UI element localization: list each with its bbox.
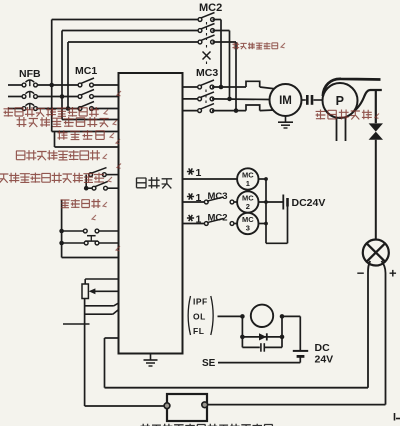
stray mark bottom right	[394, 413, 396, 421]
contactor coil MC3	[237, 213, 258, 234]
wire reset row	[55, 146, 119, 148]
wire analog 2	[85, 313, 113, 315]
wire bypass top L2	[62, 30, 200, 32]
junction L3/riser	[66, 106, 71, 111]
pump P outlet pipe outer	[323, 79, 381, 96]
wire L1 input	[8, 84, 24, 86]
contactor MC3 contact pole 2	[198, 97, 202, 101]
pushbutton SB1 (NO)	[83, 229, 87, 233]
contactor MC2 contact pole 1	[198, 18, 202, 22]
wire capacitor branch L	[242, 346, 259, 348]
label 变频器 (inverter)	[136, 177, 172, 188]
svg-text:MC2: MC2	[199, 2, 222, 14]
pump P outlet pipe inner	[348, 90, 382, 115]
wire bypass top L3	[68, 41, 200, 43]
wire L3 NFB to MC1	[36, 108, 81, 110]
wire to OL heater 3	[212, 110, 246, 112]
terminal group (IPF OL FL)	[188, 296, 190, 335]
svg-text:DC: DC	[315, 342, 331, 354]
svg-text:−: −	[357, 266, 365, 281]
contact MC3 aux (NC)	[183, 201, 205, 203]
wire MC2 coil to DC24V	[259, 201, 284, 203]
svg-text:MC1: MC1	[75, 65, 97, 77]
wire heater3 to motor	[260, 109, 275, 112]
wire MC2 out L2	[213, 30, 230, 32]
svg-text:NFB: NFB	[19, 68, 41, 80]
wire shield to TB	[85, 405, 167, 407]
breaker NFB pole 1	[22, 83, 26, 87]
contact K-param row1	[89, 173, 93, 177]
contactor MC3 contact pole 3	[198, 109, 202, 113]
svg-text:IM: IM	[279, 95, 292, 107]
junction bypass/out L1	[219, 85, 224, 90]
svg-text:MC2: MC2	[208, 213, 228, 224]
breaker NFB pole 3	[22, 107, 26, 111]
contact MC2 aux (NC)	[183, 223, 205, 225]
svg-text:3: 3	[246, 224, 250, 233]
wire inverter out T3	[183, 110, 200, 112]
valve V1	[369, 123, 383, 131]
wire drop to reset row	[54, 132, 56, 148]
terminal block TB	[167, 394, 207, 421]
svg-text:DC24V: DC24V	[292, 197, 326, 209]
annotation 人机界面压力参数设定	[0, 173, 104, 183]
wire interlock row	[52, 131, 119, 133]
wire bus bottom loop	[266, 242, 288, 244]
overload heater FR pole3	[246, 105, 260, 111]
pump P body	[323, 83, 358, 118]
wire MC2 out L1	[213, 19, 222, 21]
svg-text:2: 2	[246, 202, 250, 211]
wire analog 2 slant	[113, 310, 119, 315]
wire analog 1 slant	[114, 303, 119, 306]
svg-text:FL: FL	[193, 326, 204, 336]
wire SE	[218, 362, 300, 364]
svg-text:1: 1	[196, 214, 202, 226]
contactor coil MC2	[237, 191, 258, 212]
wire riser2 down	[61, 97, 63, 120]
pot wiper arrow	[94, 290, 119, 292]
wire MC2 out L1 drop	[220, 20, 222, 88]
junction L2/riser	[60, 94, 65, 99]
svg-text:+: +	[389, 266, 397, 281]
interlock link	[206, 45, 208, 50]
wire inverter AI common	[105, 337, 119, 339]
wire heater1 to motor	[260, 87, 277, 89]
wire AI common drop	[104, 338, 106, 388]
svg-text:1: 1	[196, 167, 202, 179]
ground under motor	[285, 116, 287, 122]
contact K-param row2	[92, 186, 96, 190]
wire L1 NFB to MC1	[36, 84, 81, 86]
contactor MC2 contact pole 2	[198, 29, 202, 33]
wire L2 input	[8, 96, 24, 98]
svg-text:IPF: IPF	[193, 297, 208, 307]
pipe/wire to pressure transducer	[375, 140, 377, 240]
MC2 mechanical link	[206, 22, 208, 40]
svg-text:MC3: MC3	[196, 67, 218, 79]
wire to pushbutton SB2	[62, 242, 85, 244]
svg-text:MC3: MC3	[208, 191, 228, 202]
junction bypass/out L3	[234, 108, 239, 113]
contactor MC1 contact pole 3	[78, 107, 82, 111]
svg-text:SE: SE	[202, 358, 216, 369]
ground under inverter	[150, 354, 152, 360]
contactor MC1 contact pole 1	[78, 83, 82, 87]
wire to OL heater 1	[212, 86, 246, 88]
wire stub	[63, 323, 90, 325]
wire to relay	[218, 315, 243, 317]
wire pot top	[84, 279, 86, 284]
svg-text:OL: OL	[193, 312, 206, 322]
annotation 变频器启动(正转)	[4, 107, 99, 117]
relay coil KA	[251, 305, 273, 327]
diode VD	[259, 333, 266, 340]
transducer + lead	[382, 261, 386, 405]
junction bypass/out L2	[227, 97, 232, 102]
wire diode branch	[242, 336, 282, 338]
annotation 外部热继电器复位	[16, 150, 100, 160]
wire inverter out T2	[183, 98, 200, 100]
wire MC3 coil to bus	[259, 223, 267, 225]
label *1 row1	[187, 168, 194, 174]
wire riser L3	[67, 42, 69, 109]
wire riser L2	[61, 31, 63, 97]
wire riser1 down	[51, 85, 53, 132]
wire MC2 out L3	[213, 41, 237, 43]
battery DC 24V	[293, 350, 308, 352]
wire L3 MC1 to inverter	[92, 108, 119, 110]
wire MC2 out L2 drop	[229, 31, 231, 99]
wire inverter out T1	[183, 86, 200, 88]
svg-text:1: 1	[246, 179, 250, 188]
wire L2 MC1 to inverter	[92, 96, 119, 98]
discharge pipe	[375, 90, 377, 123]
MC3 mechanical link	[205, 90, 207, 108]
overload heater FR pole1	[246, 81, 260, 87]
pushbutton SB2 (NC)	[84, 241, 88, 245]
potentiometer RP	[82, 284, 88, 299]
inverter box U1 变频器	[119, 73, 183, 354]
wire MC2 out L3 drop	[235, 42, 237, 111]
annotation 压力传感器	[316, 110, 372, 120]
contactor MC1 contact pole 2	[78, 95, 82, 99]
wire source-switch row	[62, 119, 119, 121]
wire battery drop	[299, 316, 301, 350]
wire pot top to inverter	[85, 278, 118, 280]
shaft coupling	[302, 99, 306, 101]
annotation 运行互锁	[58, 130, 105, 140]
terminal right	[202, 402, 208, 408]
wire L1 MC1 to inverter	[92, 84, 119, 86]
wire link parameter contacts	[85, 175, 87, 189]
wire MC1 coil to bus	[259, 178, 267, 180]
wire analog 1	[85, 305, 114, 307]
wire + to terminal block	[207, 404, 386, 406]
annotation 电机热传感器	[232, 42, 277, 49]
wire bypass top L1	[52, 19, 200, 21]
wire relay right leg	[281, 316, 283, 347]
wire capacitor branch R	[265, 346, 282, 348]
caption partial bottom	[141, 424, 273, 426]
wire pot bottom / shield drop	[84, 299, 86, 407]
capacitor C	[260, 343, 262, 352]
svg-text:1: 1	[196, 192, 202, 204]
svg-text:P: P	[336, 94, 344, 108]
wire control bus	[61, 200, 63, 258]
transducer - lead	[368, 261, 370, 388]
junction L1/riser	[49, 83, 54, 88]
annotation 调速信号	[61, 199, 101, 208]
wire bottom control row	[62, 257, 119, 259]
wire T2 to motor	[212, 98, 270, 101]
terminal left	[164, 403, 170, 409]
wire relay left leg	[241, 316, 243, 347]
interlock X MC2/MC3	[203, 52, 211, 60]
contactor MC3 contact pole 1	[198, 85, 202, 89]
wire to pushbutton SB1	[62, 230, 84, 232]
label *1 row2	[187, 193, 194, 199]
pump suction pipes	[336, 118, 338, 141]
contactor coil MC1	[237, 168, 258, 189]
label *1 row3	[187, 215, 194, 221]
annotation 变频工频电源切换	[17, 117, 109, 127]
breaker NFB pole 2	[22, 95, 26, 99]
battery DC24V control	[282, 195, 284, 210]
wire - return to inverter	[105, 387, 369, 389]
wire L2 NFB to MC1	[36, 96, 81, 98]
pressure transducer B1	[363, 240, 389, 266]
svg-text:24V: 24V	[315, 354, 334, 366]
wire loop up to DC24V	[287, 207, 289, 244]
wire riser L1	[51, 20, 53, 86]
contactor MC2 contact pole 3	[198, 40, 202, 44]
wire *1 to MC1 coil	[183, 178, 238, 180]
motor IM	[270, 84, 302, 116]
wire L3 input	[8, 108, 24, 110]
wire coil bus	[265, 179, 267, 243]
wire to battery	[282, 315, 300, 317]
